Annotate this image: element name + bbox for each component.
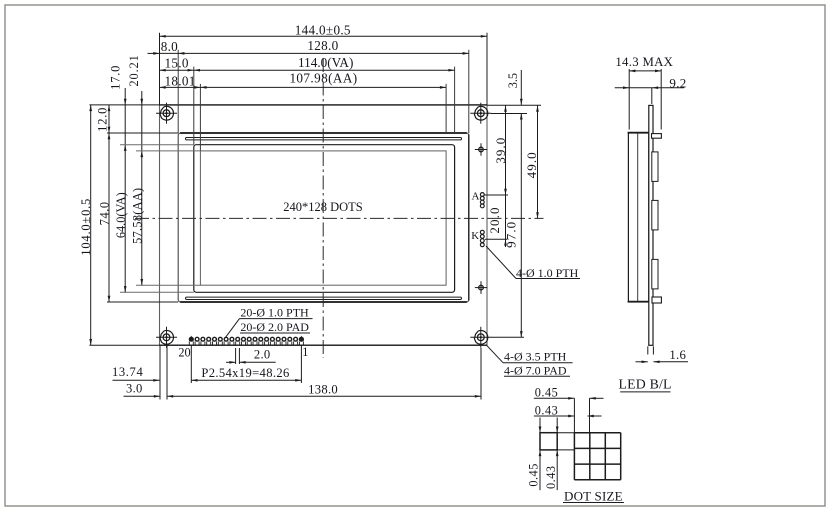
side view component 3 — [652, 259, 658, 289]
extension line PCB right — [486, 33, 488, 105]
dot cell ext top — [557, 432, 574, 434]
svg-text:144.0±0.5: 144.0±0.5 — [295, 22, 351, 37]
svg-text:13.74: 13.74 — [112, 365, 143, 379]
svg-text:4-Ø 7.0 PAD: 4-Ø 7.0 PAD — [504, 363, 567, 377]
extension line AA bottom left — [136, 284, 200, 286]
extension tick K — [485, 238, 507, 240]
svg-text:17.0: 17.0 — [108, 65, 122, 90]
PCB top edge — [160, 104, 488, 106]
viewing area VA outline — [194, 145, 455, 293]
svg-text:A: A — [472, 190, 480, 202]
mounting hole top-right — [470, 112, 491, 114]
svg-text:20: 20 — [178, 346, 190, 360]
bezel top lip slot — [186, 138, 462, 140]
extension line hole left bottom — [166, 346, 168, 400]
side view bezel top cap — [628, 132, 650, 134]
svg-text:0.45: 0.45 — [527, 463, 541, 487]
svg-text:138.0: 138.0 — [308, 382, 338, 396]
dim 57.58(AA) — [141, 157, 143, 285]
tick 1.6 left — [647, 346, 649, 354]
extension line pin20 — [190, 345, 192, 383]
mounting hole bottom-left — [156, 336, 177, 338]
svg-text:0.43: 0.43 — [544, 465, 558, 489]
svg-text:2.0: 2.0 — [254, 347, 271, 361]
dim 104.0±0.5 — [90, 105, 92, 345]
20-pin header row — [189, 337, 193, 341]
dim 39.0 — [505, 106, 507, 248]
svg-text:K: K — [471, 230, 479, 242]
dim 3.5 — [520, 70, 522, 105]
dim 20.0 — [504, 239, 507, 245]
extension line bottom-left — [89, 344, 159, 346]
svg-text:P2.54x19=48.26: P2.54x19=48.26 — [201, 366, 289, 380]
grid ext left — [573, 398, 575, 432]
svg-text:9.2: 9.2 — [669, 76, 686, 91]
svg-text:64.0(VA): 64.0(VA) — [114, 192, 128, 238]
dim 128.0 — [160, 52, 469, 54]
side ext line PCB back — [651, 88, 653, 104]
svg-text:DOT SIZE: DOT SIZE — [564, 488, 623, 503]
svg-text:57.58(AA): 57.58(AA) — [131, 188, 145, 244]
side ext line back tab — [660, 69, 662, 130]
bezel bottom lip slot — [186, 297, 462, 299]
label 4-dia 7.0 PAD — [504, 375, 570, 377]
svg-text:20.0: 20.0 — [487, 206, 502, 233]
svg-text:39.0: 39.0 — [493, 137, 508, 164]
svg-text:12.0: 12.0 — [95, 107, 109, 132]
dim 8.0 — [148, 52, 160, 54]
extension line bezel top left — [107, 132, 178, 134]
side view PCB bar — [649, 105, 653, 345]
extension line bezel bottom left — [107, 301, 178, 303]
svg-text:1: 1 — [302, 345, 308, 359]
small PTH hole lower-right — [475, 287, 487, 289]
svg-text:49.0: 49.0 — [524, 151, 539, 178]
extension line VA top left — [120, 144, 194, 146]
tick 2.0 right — [238, 348, 240, 364]
extension line VA left — [193, 67, 195, 145]
dim 20.21 — [141, 91, 143, 157]
svg-text:8.0: 8.0 — [161, 39, 178, 54]
extension line pin1 — [300, 345, 302, 383]
extension line AA right — [445, 84, 447, 133]
extension line VA bottom left — [120, 291, 194, 293]
extension line AA top left — [136, 150, 200, 152]
svg-text:0.45: 0.45 — [535, 386, 559, 400]
dim 64.0(VA) — [124, 150, 126, 292]
dim 138.0 — [167, 395, 481, 397]
grid ext right — [589, 398, 591, 432]
svg-text:104.0±0.5: 104.0±0.5 — [79, 198, 93, 256]
dim 97.0 — [520, 113, 522, 337]
dim 12.0 — [108, 105, 110, 133]
side view bezel block — [628, 133, 648, 302]
tick 1.6 right — [652, 346, 654, 354]
extension line hole right bottom — [480, 348, 482, 400]
label 20-dia 2.0 PAD — [240, 332, 310, 334]
metal bezel outline — [178, 133, 469, 302]
dim 14.3 MAX — [629, 70, 661, 72]
svg-text:74.0: 74.0 — [98, 201, 112, 225]
dot matrix 3x3 grid — [573, 433, 575, 480]
svg-text:4-Ø 1.0 PTH: 4-Ø 1.0 PTH — [516, 266, 579, 280]
dot cell detail — [540, 433, 557, 450]
dim 74.0 — [108, 133, 110, 302]
extension line PCB left — [159, 33, 161, 105]
svg-text:20.21: 20.21 — [127, 54, 141, 86]
dim 0.43 vertical — [556, 418, 558, 433]
leader 20-dia 1.0 PTH — [225, 319, 239, 338]
mounting hole top-left — [156, 112, 177, 114]
svg-text:LED B/L: LED B/L — [619, 376, 672, 391]
active area AA outline — [200, 151, 446, 285]
extension line module left bottom — [159, 346, 161, 400]
extension line bezel left — [177, 50, 179, 133]
svg-text:1.6: 1.6 — [669, 348, 686, 362]
side view top tab — [652, 134, 662, 139]
svg-text:4-Ø 3.5 PTH: 4-Ø 3.5 PTH — [504, 350, 567, 364]
leader 4-dia 1.0 PTH — [486, 246, 516, 279]
extension line top-left — [89, 104, 159, 106]
svg-text:3.0: 3.0 — [126, 382, 143, 396]
extension line top hole right — [491, 113, 527, 115]
svg-text:14.3 MAX: 14.3 MAX — [615, 55, 673, 69]
backlight cathode pad K — [480, 230, 484, 234]
svg-text:20-Ø 1.0 PTH: 20-Ø 1.0 PTH — [240, 306, 309, 320]
dim 2.0 — [226, 361, 236, 363]
svg-text:3.5: 3.5 — [506, 73, 520, 88]
PCB bottom edge — [160, 344, 488, 346]
extension line bezel right — [468, 50, 470, 133]
leader 4-dia 3.5 PTH — [487, 345, 504, 363]
horizontal centerline — [135, 217, 544, 219]
side view component 2 — [652, 200, 658, 230]
side view bezel inner wall — [637, 134, 639, 302]
vertical centerline — [322, 58, 324, 358]
dim 0.45 vertical — [539, 418, 541, 433]
LCD module PCB outline — [160, 105, 488, 345]
dim 0.45 horizontal — [534, 397, 575, 399]
svg-text:114.0(VA): 114.0(VA) — [298, 55, 353, 70]
dim 114.0(VA) — [160, 69, 455, 71]
backlight anode pad A — [480, 193, 484, 197]
svg-text:107.98(AA): 107.98(AA) — [289, 71, 357, 86]
svg-text:0.43: 0.43 — [535, 403, 559, 417]
side ext line front face — [628, 69, 630, 130]
dim 17.0 — [124, 88, 126, 150]
mounting hole bottom-right — [470, 336, 491, 338]
tick 2.0 left — [235, 348, 237, 364]
dim 3.0 — [124, 395, 161, 397]
dim 13.74 — [113, 379, 160, 381]
dim 9.2 — [615, 87, 684, 89]
svg-text:15.0: 15.0 — [165, 55, 189, 70]
svg-text:128.0: 128.0 — [307, 38, 338, 53]
dim 107.98(AA) — [160, 86, 447, 88]
small PTH hole upper-right — [475, 149, 487, 151]
svg-text:18.01: 18.01 — [165, 73, 196, 88]
side view bezel bottom cap — [628, 301, 650, 303]
dot cell ext bottom — [557, 449, 574, 451]
extension line top edge right — [487, 104, 541, 106]
extension line VA right — [454, 67, 456, 133]
svg-text:20-Ø 2.0 PAD: 20-Ø 2.0 PAD — [240, 320, 309, 334]
dim 0.43 horizontal — [534, 415, 575, 417]
extension line AA left — [199, 84, 201, 151]
dim 49.0 — [537, 106, 539, 219]
dim 144.0±0.5 — [160, 35, 488, 37]
extension line bottom hole right — [491, 336, 524, 338]
dim 1.6 — [636, 361, 648, 363]
side view bottom tab — [652, 297, 661, 303]
dim P2.54x19=48.26 — [191, 379, 301, 381]
extension tick A — [485, 194, 509, 196]
svg-text:97.0: 97.0 — [503, 221, 518, 248]
side view component 1 — [652, 152, 658, 182]
